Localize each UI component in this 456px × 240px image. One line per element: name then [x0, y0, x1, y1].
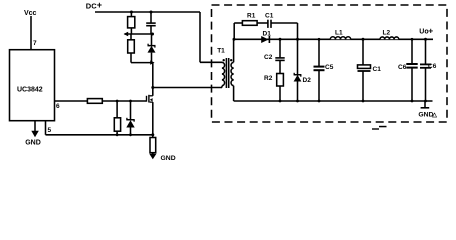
svg-text:T1: T1 — [217, 47, 225, 54]
svg-text:D2: D2 — [303, 77, 312, 84]
svg-text:5: 5 — [48, 127, 52, 134]
svg-text:DC: DC — [86, 2, 97, 11]
svg-text:6: 6 — [56, 103, 60, 110]
svg-text:+: + — [97, 0, 102, 10]
svg-text:Uo: Uo — [419, 29, 428, 36]
svg-text:C5: C5 — [325, 64, 334, 71]
svg-text:+: + — [428, 25, 433, 35]
svg-text:UC3842: UC3842 — [17, 87, 43, 94]
svg-text:L1: L1 — [335, 30, 343, 37]
svg-text:C6: C6 — [398, 64, 407, 71]
svg-text:C6: C6 — [428, 63, 437, 70]
svg-text:R1: R1 — [247, 12, 256, 19]
svg-text:R2: R2 — [264, 75, 273, 82]
svg-text:GND: GND — [25, 139, 41, 146]
svg-text:△: △ — [431, 112, 437, 119]
svg-text:C2: C2 — [264, 54, 273, 61]
svg-text:GND: GND — [161, 155, 176, 162]
svg-text:C1: C1 — [373, 66, 382, 73]
svg-text:D1: D1 — [263, 31, 272, 38]
svg-text:Vcc: Vcc — [24, 10, 37, 17]
svg-text:C1: C1 — [265, 12, 274, 19]
svg-text:L2: L2 — [383, 30, 391, 37]
svg-text:7: 7 — [33, 40, 37, 47]
